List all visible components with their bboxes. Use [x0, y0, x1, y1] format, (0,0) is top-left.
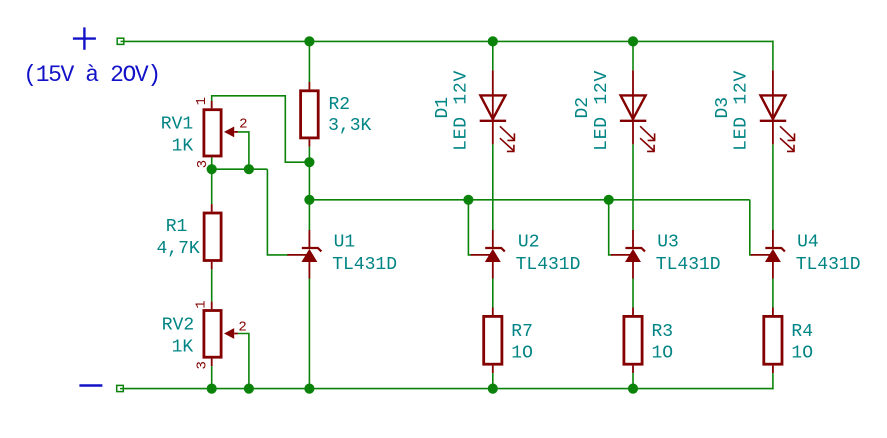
wire middle reference rail — [309, 199, 749, 201]
svg-text:3,3K: 3,3K — [328, 116, 371, 136]
svg-text:TL431D: TL431D — [656, 255, 721, 275]
svg-text:U4: U4 — [797, 233, 819, 253]
pin R4 bottom — [772, 366, 774, 374]
wire node row to U1 ref — [267, 169, 288, 255]
LED D2 — [620, 70, 655, 151]
junction RV1 pin3 node — [207, 164, 217, 174]
junction bottom rail / R3 — [628, 384, 638, 394]
svg-text:R2: R2 — [329, 95, 351, 115]
svg-text:TL431D: TL431D — [332, 255, 397, 275]
junction top rail / D1 — [488, 36, 498, 46]
svg-text:TL431D: TL431D — [796, 255, 861, 275]
pin R7 bottom — [492, 366, 494, 374]
pin R2 bottom — [308, 139, 310, 146]
potentiometer RV2 — [204, 311, 238, 358]
svg-text:2: 2 — [238, 320, 246, 336]
wire RV1 wiper to node row — [238, 132, 249, 169]
svg-text:1O: 1O — [791, 344, 813, 364]
pin R1 bottom — [211, 262, 213, 270]
svg-text:R4: R4 — [791, 322, 813, 342]
shunt regulator U1 TL431 — [287, 230, 321, 279]
svg-text:U3: U3 — [657, 233, 679, 253]
pin R7 top — [492, 308, 494, 316]
junction bottom rail / U1 — [304, 384, 314, 394]
svg-text:U1: U1 — [334, 233, 356, 253]
wire RV1 pin3 to node row — [211, 157, 213, 169]
svg-text:R1: R1 — [166, 217, 188, 237]
svg-text:RV1: RV1 — [161, 114, 193, 134]
junction middle rail / U1 — [304, 195, 314, 205]
svg-text:1O: 1O — [511, 344, 533, 364]
wire U3 anode to R3 — [632, 279, 634, 308]
power terminal - (negative supply) — [79, 384, 102, 386]
wire U4 anode to R4 — [772, 279, 774, 308]
junction top rail / R2 — [304, 36, 314, 46]
wire bottom rail corner up to R4 — [772, 373, 774, 389]
LED D1 — [480, 70, 515, 151]
wire D3 cathode to U4 cathode — [772, 144, 774, 230]
wire RV1 pin1 up-over-down to R2 bottom node — [212, 96, 310, 162]
svg-text:R7: R7 — [511, 322, 533, 342]
junction middle rail / U3 ref — [604, 195, 614, 205]
pin RV2 bottom — [211, 359, 213, 367]
wire U1 anode to bottom rail — [308, 279, 310, 389]
wire D2 cathode to U3 cathode — [632, 144, 634, 230]
shunt regulator U3 TL431 — [611, 230, 645, 279]
pin R1 top — [211, 204, 213, 212]
pin R2 top — [308, 82, 310, 89]
wire bottom negative rail — [123, 388, 773, 390]
svg-text:TL431D: TL431D — [516, 255, 581, 275]
pin R3 top — [632, 308, 634, 316]
wire D1 cathode to U2 cathode — [492, 144, 494, 230]
svg-text:D2: D2 — [573, 97, 593, 119]
wire RV2 wiper to bottom rail — [238, 334, 249, 389]
junction bottom rail / R7 — [488, 384, 498, 394]
resistor R3 — [624, 316, 642, 364]
resistor R7 — [484, 316, 502, 364]
svg-text:2: 2 — [239, 116, 247, 132]
svg-text:D3: D3 — [713, 97, 733, 119]
junction middle rail / U2 ref — [463, 195, 473, 205]
top supply terminal open-square wire end — [117, 38, 124, 44]
pin RV2 top — [211, 302, 213, 310]
pin R3 bottom — [632, 366, 634, 374]
LED D3 — [760, 70, 795, 151]
svg-text:1O: 1O — [652, 344, 674, 364]
wire top rail to D1 — [492, 41, 494, 70]
svg-text:3: 3 — [195, 361, 211, 369]
svg-text:LED 12V: LED 12V — [592, 70, 612, 151]
power terminal + (positive supply) — [73, 27, 96, 49]
resistor R1 — [204, 213, 221, 261]
svg-text:R3: R3 — [652, 322, 674, 342]
bottom supply terminal open-square wire end — [117, 385, 124, 391]
wire R1 to RV2 pin1 — [211, 269, 213, 301]
svg-text:1: 1 — [194, 97, 210, 105]
junction top rail / D2 — [628, 36, 638, 46]
junction R2 bottom node — [304, 157, 314, 167]
junction bottom rail / RV2 — [207, 384, 217, 394]
wire R2 to U1 cathode — [308, 147, 310, 231]
svg-text:(15V à 2OV): (15V à 2OV) — [23, 62, 159, 88]
resistor R4 — [764, 316, 782, 364]
potentiometer RV1 — [204, 110, 238, 156]
pin RV1 pin1 lead — [211, 101, 213, 108]
shunt regulator U4 TL431 — [751, 230, 785, 279]
svg-text:3: 3 — [195, 160, 211, 168]
shunt regulator U2 TL431 — [471, 230, 505, 279]
svg-text:U2: U2 — [518, 233, 540, 253]
junction RV1 wiper node — [244, 164, 254, 174]
wire top rail corner down to D3 — [772, 41, 774, 71]
junction bottom rail / RV2 wiper — [244, 384, 254, 394]
svg-text:RV2: RV2 — [162, 315, 194, 335]
wire R7 to bottom rail — [492, 373, 494, 389]
svg-text:D1: D1 — [433, 97, 453, 119]
svg-text:LED 12V: LED 12V — [452, 70, 472, 151]
resistor R2 — [301, 91, 319, 138]
svg-text:1K: 1K — [172, 137, 194, 157]
pin R4 top — [772, 308, 774, 316]
wire R3 to bottom rail — [632, 373, 634, 389]
wire node row to R1 top — [211, 169, 213, 204]
wire U4 ref drop — [750, 200, 752, 255]
wire top rail to R2 — [308, 41, 310, 82]
wire RV2 pin3 to bottom rail — [211, 366, 213, 389]
svg-text:4,7K: 4,7K — [156, 239, 199, 259]
svg-text:1K: 1K — [172, 338, 194, 358]
wire node row RV1 bottom — [212, 168, 268, 170]
svg-text:1: 1 — [194, 300, 210, 308]
wire U2 ref drop — [468, 200, 471, 255]
svg-text:LED 12V: LED 12V — [732, 70, 752, 151]
wire top rail to D2 — [632, 41, 634, 70]
wire U2 anode to R7 — [492, 279, 494, 308]
wire top positive rail — [124, 40, 773, 42]
wire U3 ref drop — [609, 200, 612, 255]
